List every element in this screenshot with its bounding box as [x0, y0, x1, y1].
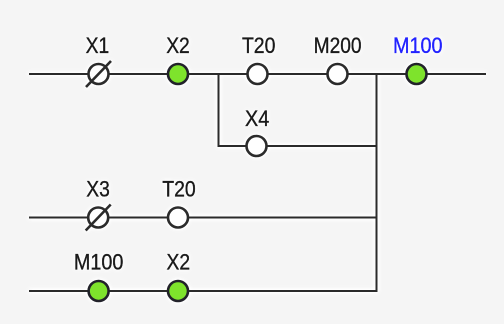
contact X1 (normally-closed, off): [86, 33, 111, 87]
svg-text:M200: M200: [314, 33, 362, 58]
wire right vertical bus: [376, 73, 378, 292]
contact T20 rung 1: [242, 33, 276, 84]
svg-text:X2: X2: [166, 33, 190, 58]
coil M100 (energized, blue label): [393, 33, 443, 84]
contact M200: [314, 33, 362, 84]
contact X2 (energized): [166, 33, 190, 84]
contact X4 (branch): [245, 106, 269, 156]
svg-text:M100: M100: [393, 33, 443, 58]
contact X2 rung 4 (energized): [167, 250, 191, 302]
wire branch X4 horizontal: [218, 145, 377, 147]
contact T20 rung 3: [162, 177, 196, 228]
wire branch drop after X2: [218, 74, 220, 146]
contact X3 (normally-closed, off): [86, 177, 111, 231]
svg-text:X4: X4: [245, 106, 269, 131]
svg-text:X1: X1: [86, 33, 110, 58]
svg-text:X3: X3: [86, 177, 110, 202]
svg-text:T20: T20: [242, 33, 276, 58]
contact M100 rung 4 (energized): [74, 250, 124, 302]
wire rung 3: [29, 217, 378, 219]
svg-text:X2: X2: [167, 250, 191, 275]
wire rung 1: [29, 73, 486, 75]
svg-text:M100: M100: [74, 250, 124, 275]
wire rung 4: [29, 290, 378, 292]
svg-text:T20: T20: [162, 177, 196, 202]
